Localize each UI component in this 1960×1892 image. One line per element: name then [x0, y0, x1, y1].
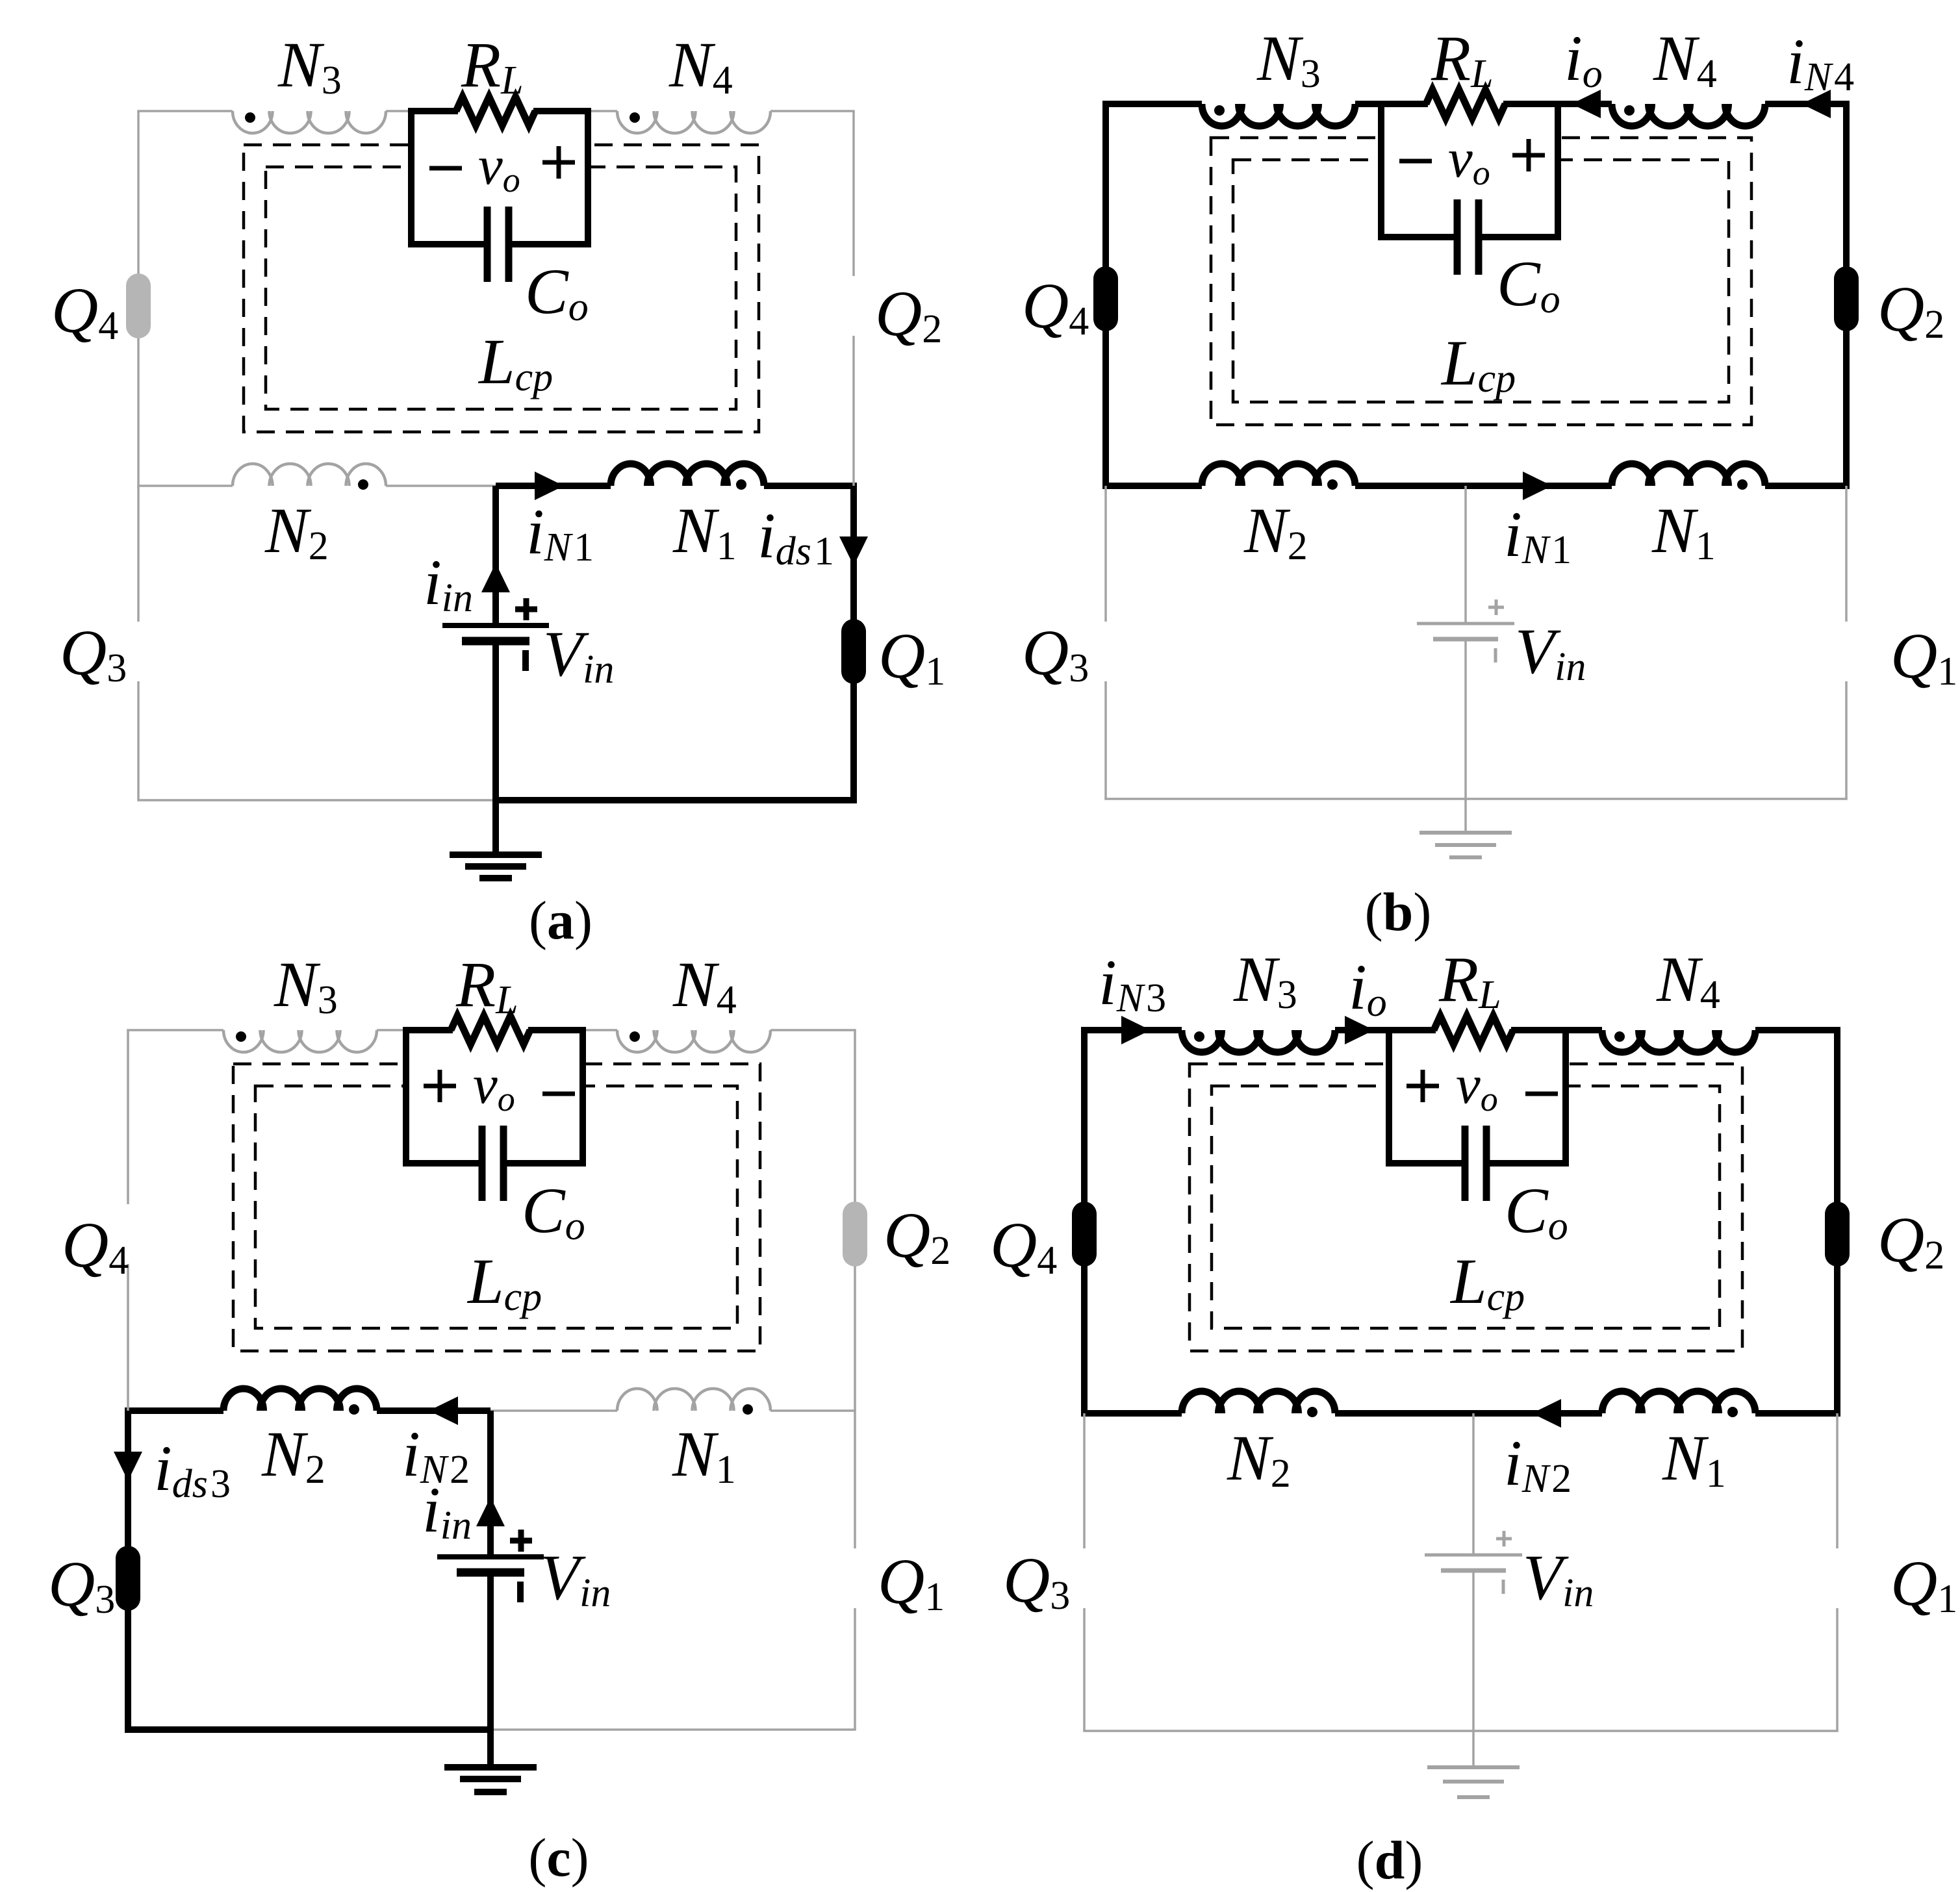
svg-text:(d): (d) [1356, 1830, 1423, 1891]
svg-text:(a): (a) [529, 890, 592, 951]
svg-text:(c): (c) [528, 1828, 589, 1888]
svg-text:(b): (b) [1365, 882, 1432, 942]
